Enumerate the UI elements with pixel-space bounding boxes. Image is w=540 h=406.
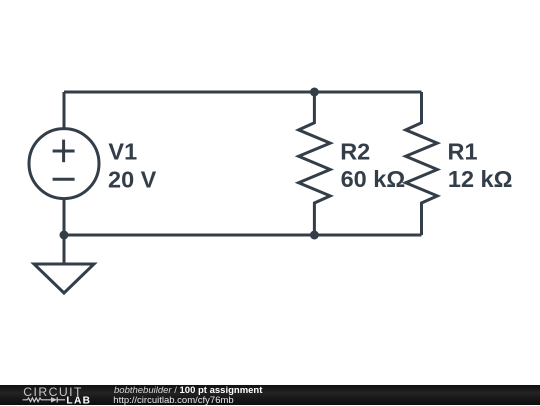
logo wire with resistor <box>23 397 66 402</box>
wire bottom net from V1 to R1 <box>64 234 422 237</box>
logo diode <box>51 397 57 402</box>
svg-text:R1: R1 <box>448 139 478 165</box>
svg-text:20 V: 20 V <box>108 166 157 192</box>
svg-text:LAB: LAB <box>66 395 91 406</box>
voltage source V1 <box>29 129 99 199</box>
ground <box>34 264 94 293</box>
node bottom junction <box>310 231 319 240</box>
footer url line <box>113 396 233 406</box>
wire top net from V1 to R1 <box>64 91 422 94</box>
CircuitLab logo <box>0 385 110 406</box>
node ground junction <box>60 231 69 240</box>
svg-text:12 kΩ: 12 kΩ <box>448 166 513 192</box>
svg-text:V1: V1 <box>108 139 137 165</box>
resistor R1 <box>406 92 438 235</box>
footer credit line <box>114 386 262 396</box>
svg-text:60 kΩ: 60 kΩ <box>341 166 406 192</box>
wire V1 top lead <box>63 92 66 129</box>
svg-text:R2: R2 <box>340 139 370 165</box>
wire V1 bottom lead <box>63 199 66 235</box>
wire ground stem <box>63 235 66 264</box>
node top junction <box>310 88 319 97</box>
resistor R2 <box>299 92 331 235</box>
footer bar <box>0 385 540 406</box>
